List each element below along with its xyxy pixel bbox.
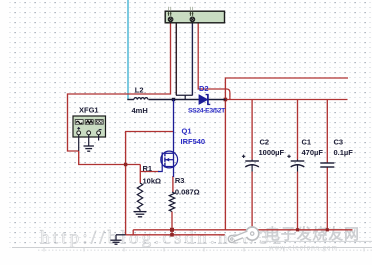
svg-text:Q1: Q1 bbox=[182, 127, 192, 136]
svg-text:IRF540: IRF540 bbox=[181, 137, 206, 146]
svg-text:D2: D2 bbox=[199, 84, 209, 93]
svg-text:10kΩ: 10kΩ bbox=[143, 177, 162, 186]
svg-text:0.1µF: 0.1µF bbox=[334, 148, 354, 157]
svg-text:C3: C3 bbox=[334, 138, 344, 147]
svg-text:C2: C2 bbox=[260, 138, 270, 147]
svg-text:R1: R1 bbox=[143, 164, 153, 173]
svg-text:1000µF: 1000µF bbox=[259, 148, 285, 157]
svg-text:0.087Ω: 0.087Ω bbox=[175, 187, 200, 196]
svg-text:SS24-E3/52T: SS24-E3/52T bbox=[188, 108, 226, 115]
svg-text:C1: C1 bbox=[302, 138, 312, 147]
svg-text:XFG1: XFG1 bbox=[79, 106, 99, 115]
svg-text:www.elecfans.com: www.elecfans.com bbox=[268, 244, 338, 251]
svg-text:4mH: 4mH bbox=[132, 106, 148, 115]
svg-text:电子发烧友网: 电子发烧友网 bbox=[265, 225, 360, 243]
svg-text:R3: R3 bbox=[175, 176, 185, 185]
svg-text:L2: L2 bbox=[135, 86, 144, 95]
svg-text:470µF: 470µF bbox=[302, 148, 324, 157]
